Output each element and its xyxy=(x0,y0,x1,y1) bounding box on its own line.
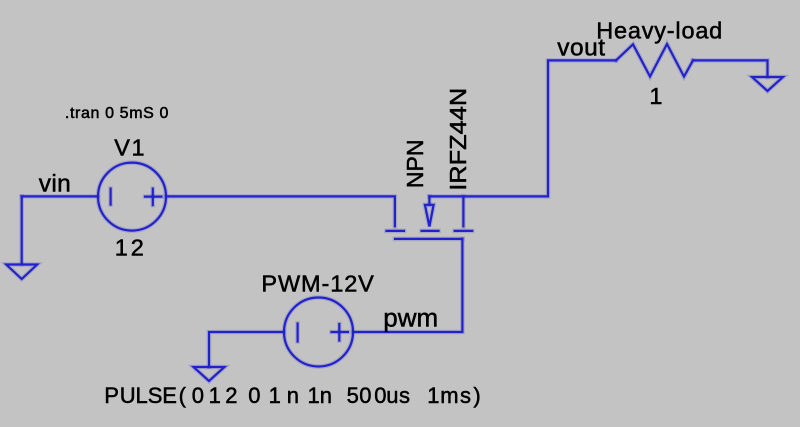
wire vin-ground to V1 minus xyxy=(22,194,98,199)
transistor M1 channel bar left xyxy=(387,229,405,234)
transistor M1 source lead xyxy=(461,196,466,226)
wire gate to pwm node xyxy=(353,239,462,332)
voltage source V1 xyxy=(98,163,166,231)
svg-text:V1: V1 xyxy=(114,134,144,160)
transistor M1 channel bar middle xyxy=(422,229,439,234)
svg-text:PULSE(0 12 0 1n 1n 500us 1ms): PULSE(0 12 0 1n 1n 500us 1ms) xyxy=(104,383,480,408)
transistor M1 gate line xyxy=(395,237,462,242)
svg-text:1: 1 xyxy=(649,83,663,109)
svg-text:PWM-12V: PWM-12V xyxy=(261,270,374,296)
svg-text:vin: vin xyxy=(39,170,71,197)
svg-text:.tran 0 5mS 0: .tran 0 5mS 0 xyxy=(65,105,169,122)
resistor Heavy-load zigzag xyxy=(616,44,693,77)
transistor M1 channel bar right xyxy=(455,229,473,234)
ground (pwm source) xyxy=(194,367,225,381)
ground (load) xyxy=(752,77,783,91)
voltage source V2 PWM xyxy=(284,298,353,367)
wire V1 plus to MOSFET drain lead xyxy=(166,196,395,226)
ground (vin net) xyxy=(6,196,37,279)
svg-text:NPN: NPN xyxy=(402,139,428,188)
svg-text:Heavy-load: Heavy-load xyxy=(596,17,723,43)
svg-text:pwm: pwm xyxy=(383,303,438,333)
transistor M1 body arrow xyxy=(425,196,434,226)
wire resistor to ground xyxy=(693,60,768,77)
wire V2 minus to ground xyxy=(209,332,284,367)
wire source to vout corner xyxy=(429,60,616,196)
svg-text:IRFZ44N: IRFZ44N xyxy=(445,88,471,191)
svg-text:12: 12 xyxy=(115,234,144,260)
